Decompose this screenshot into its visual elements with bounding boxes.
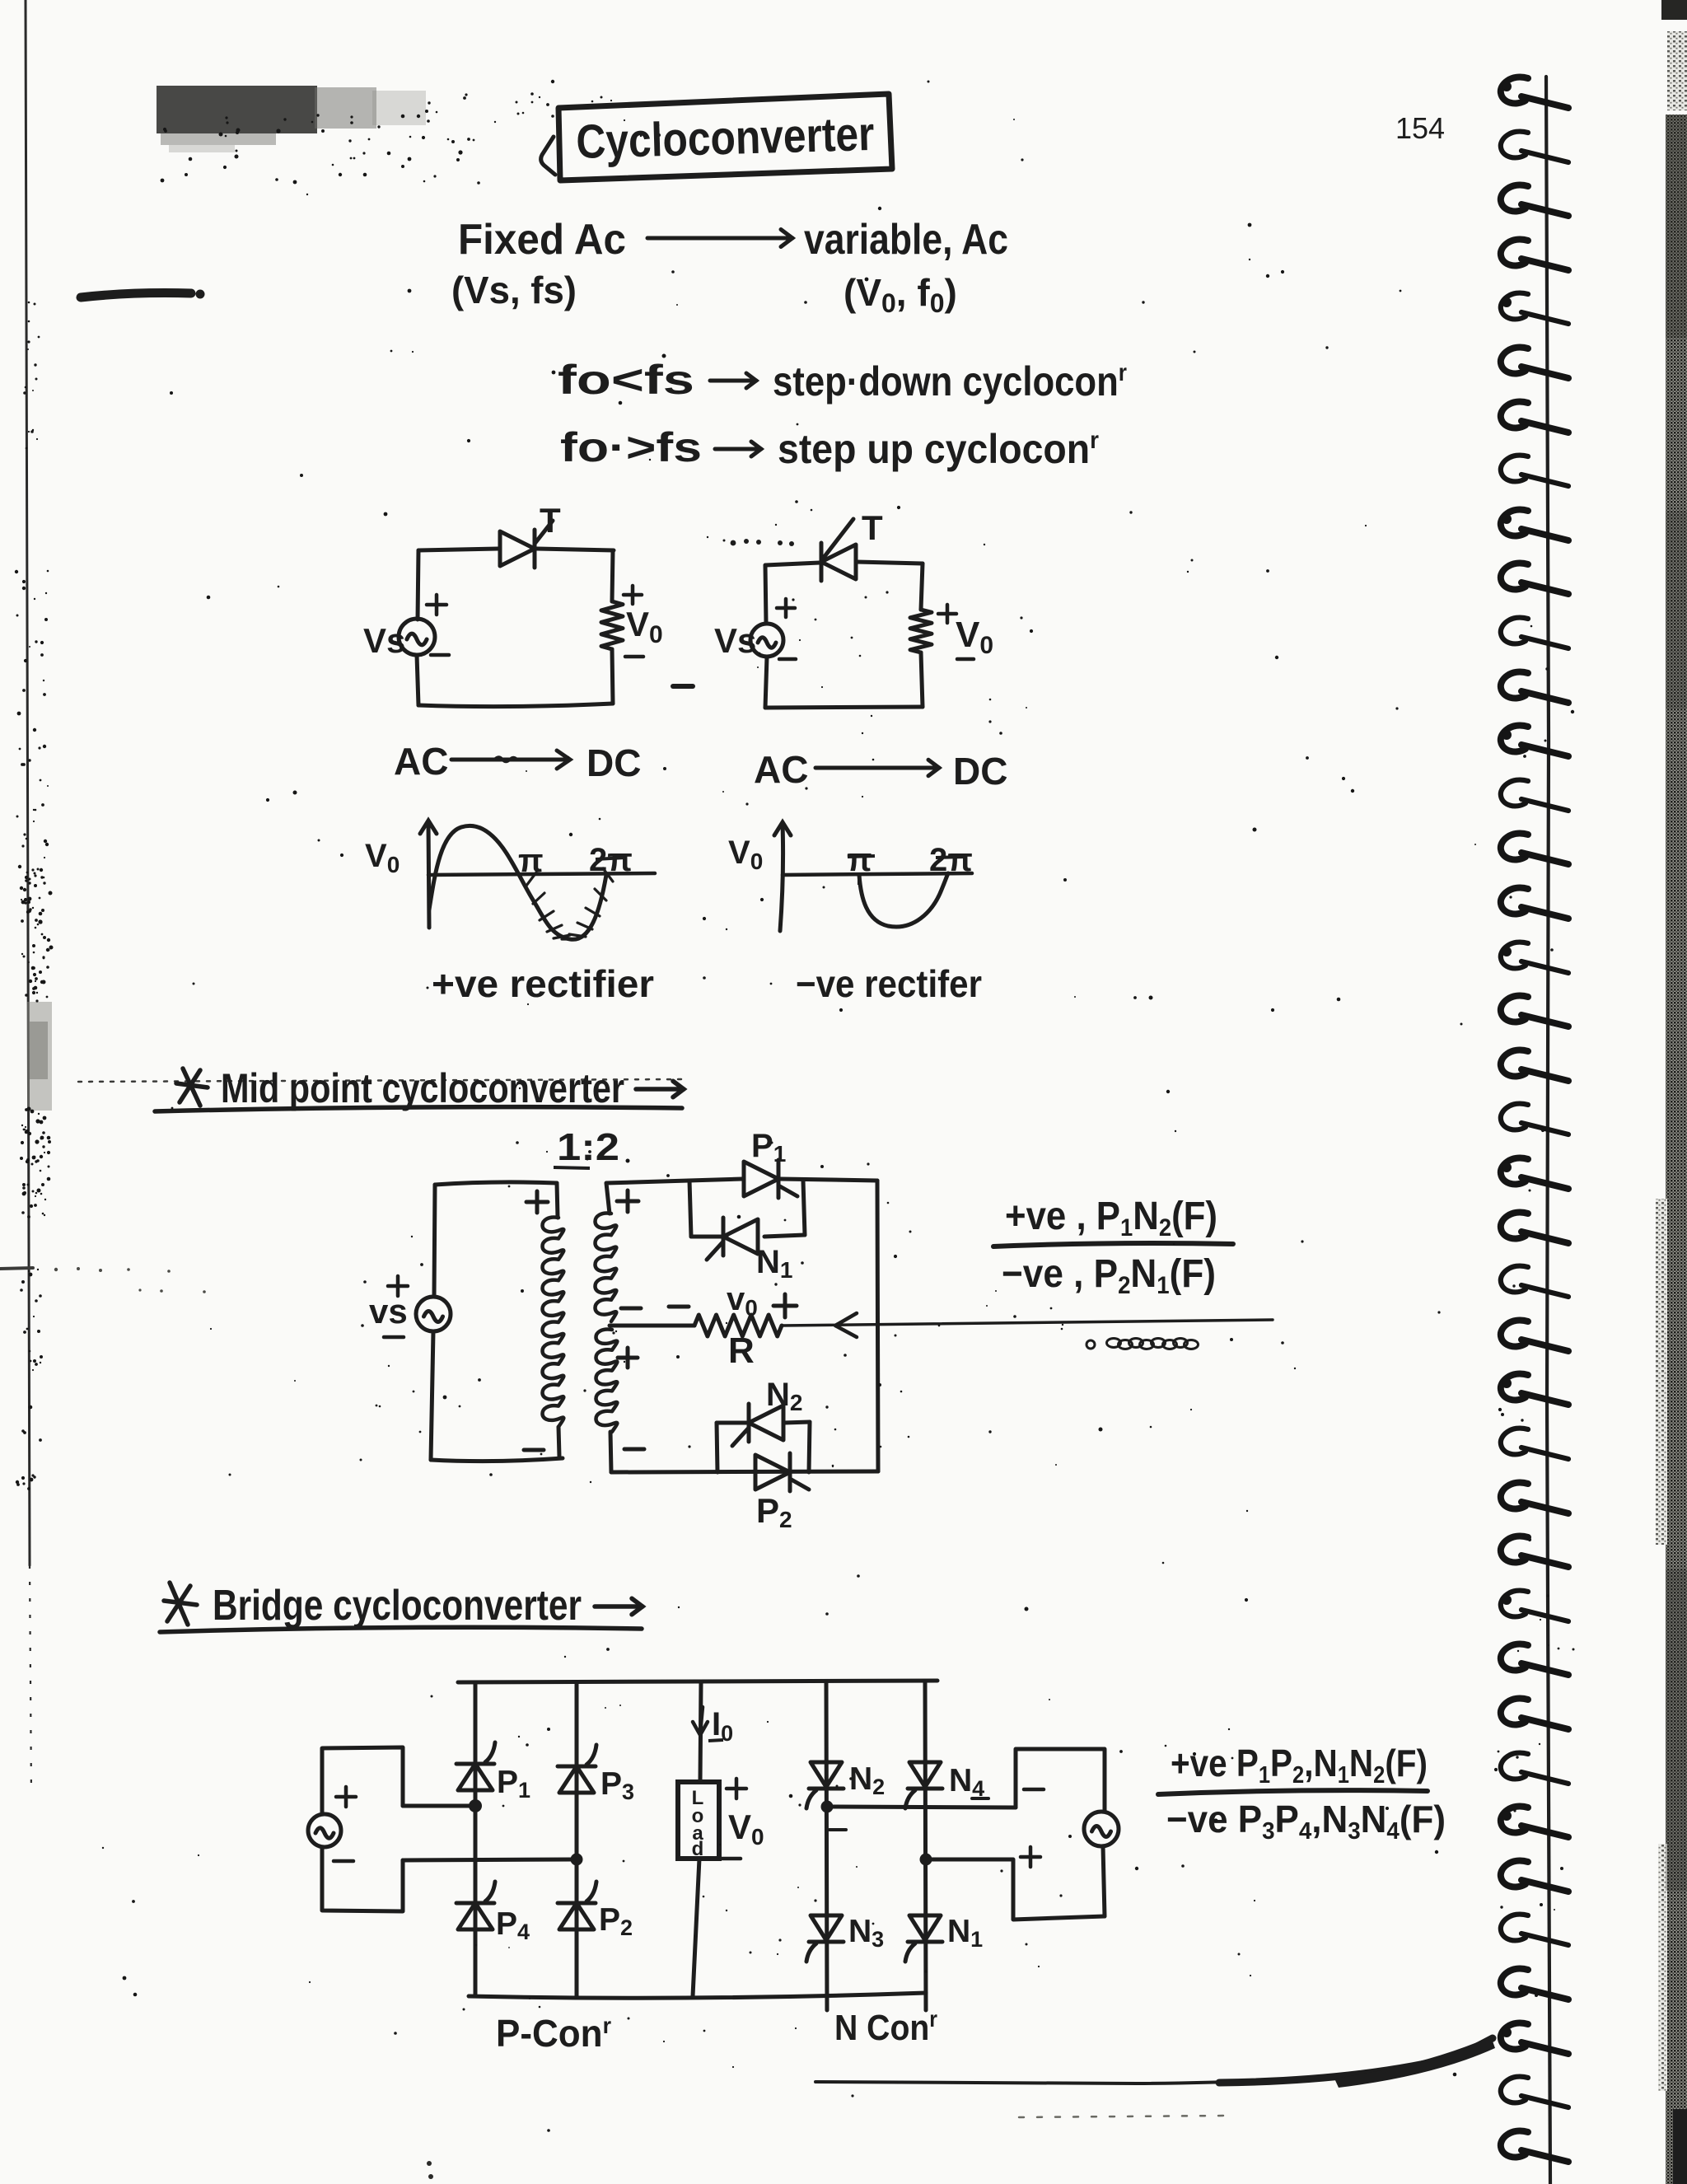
thyristor P4 bridge xyxy=(456,1882,495,1929)
thyristor N1 xyxy=(707,1218,758,1260)
thyristor P3 bridge xyxy=(558,1745,596,1793)
svg-text:Fixed Ac: Fixed Ac xyxy=(458,216,626,264)
svg-text:−ve , P2N1(F): −ve , P2N1(F) xyxy=(1002,1252,1216,1299)
plus right source bridge xyxy=(1021,1847,1040,1867)
left margin rule xyxy=(26,0,30,1565)
thyristor N4 bridge xyxy=(905,1762,942,1808)
svg-text:V0: V0 xyxy=(728,1808,764,1850)
wire right upper circuit1 xyxy=(612,550,613,601)
svg-text:V0: V0 xyxy=(728,835,763,874)
wire N junction to right bracket upper xyxy=(827,1807,1016,1808)
waveform1 hatching on negative lobe xyxy=(526,868,613,939)
svg-text:T: T xyxy=(862,508,883,547)
plus left source bridge xyxy=(336,1787,356,1807)
wire bottom rail midpoint xyxy=(611,1471,878,1472)
svg-text:π: π xyxy=(847,842,872,878)
svg-text:Vs: Vs xyxy=(714,621,756,660)
scribble chain under note xyxy=(1087,1339,1199,1349)
svg-text:N2: N2 xyxy=(766,1377,802,1415)
svg-text:d: d xyxy=(692,1838,704,1860)
primary winding xyxy=(543,1218,564,1427)
left source bottom bracket xyxy=(322,1847,403,1911)
plus at source circuit2 xyxy=(777,599,795,617)
thyristor P1 xyxy=(744,1160,797,1198)
wire secondary bottom stub xyxy=(610,1432,611,1472)
svg-text:fo·>fs: fo·>fs xyxy=(560,424,702,470)
svg-text:N3: N3 xyxy=(848,1914,884,1952)
heading2 underline xyxy=(160,1627,642,1632)
plus at load circuit1 xyxy=(624,586,642,604)
waveform2 vertical axis xyxy=(774,822,791,931)
wire left lower circuit1 xyxy=(417,655,418,705)
minus primary bottom xyxy=(524,1448,544,1452)
bridge bottom rail xyxy=(469,1993,926,1998)
left source top bracket xyxy=(322,1747,403,1814)
svg-text:step·down cycloconr: step·down cycloconr xyxy=(773,358,1127,405)
svg-text:Vs: Vs xyxy=(363,621,405,660)
wire primary top stub to winding xyxy=(557,1183,558,1218)
thyristor P2 xyxy=(755,1453,809,1491)
wire top-right segment circuit1 xyxy=(537,549,614,550)
rail N4 N1 xyxy=(925,1682,926,2010)
thyristor T circuit1 xyxy=(500,521,553,568)
wire primary winding bottom stub xyxy=(558,1427,559,1457)
svg-text:1:2: 1:2 xyxy=(557,1125,619,1168)
source Vs circuit2 xyxy=(750,624,783,657)
svg-text:+ve rectifier: +ve rectifier xyxy=(432,962,654,1005)
wire N1 branch left xyxy=(691,1235,727,1239)
wire top rail to P1 xyxy=(689,1179,742,1181)
svg-text:R: R xyxy=(728,1331,755,1371)
scan smudge top-left xyxy=(157,86,426,152)
minus left source bridge xyxy=(334,1859,353,1864)
thyristor N2 bridge xyxy=(806,1762,843,1808)
plus at load circuit2 xyxy=(938,605,956,623)
wire top-left segment circuit1 xyxy=(418,549,498,550)
junction dot P3 P2 xyxy=(571,1854,583,1866)
svg-text:P2: P2 xyxy=(756,1491,792,1532)
plus right of V0 midpoint xyxy=(773,1294,797,1317)
bottom page-edge line xyxy=(815,2038,1493,2083)
minus secondary bottom xyxy=(624,1447,644,1452)
load branch wire upper xyxy=(700,1682,701,1782)
plus primary top xyxy=(526,1191,548,1213)
resistor R midpoint xyxy=(694,1315,782,1336)
svg-text:DC: DC xyxy=(586,741,641,784)
svg-text:2π: 2π xyxy=(929,842,973,878)
right source top bracket xyxy=(1016,1749,1105,1811)
junction stub left of P1-N1 loop xyxy=(689,1181,691,1237)
left margin smear band xyxy=(27,1002,52,1111)
svg-text:DC: DC xyxy=(953,750,1007,793)
arrow I0 xyxy=(693,1707,708,1735)
thyristor P1 bridge xyxy=(456,1742,495,1790)
svg-text:N4: N4 xyxy=(949,1763,984,1801)
wire left lower circuit2 xyxy=(765,657,767,708)
source right bridge xyxy=(1084,1812,1119,1846)
wire top-right segment circuit2 xyxy=(857,562,923,564)
svg-text:+ve , P1N2(F): +ve , P1N2(F) xyxy=(1005,1195,1217,1242)
secondary winding lower half xyxy=(596,1330,618,1432)
junction dot P1 P4 xyxy=(469,1799,482,1812)
svg-text:+ve P1P2,N1N2(F): +ve P1P2,N1N2(F) xyxy=(1171,1742,1428,1789)
wire bottom circuit2 xyxy=(765,707,923,708)
leading dots circuit2 xyxy=(731,539,794,546)
minus near N4 xyxy=(972,1797,988,1800)
plus at load bridge xyxy=(727,1779,746,1798)
svg-text:V0: V0 xyxy=(365,838,400,877)
heading1 arrow xyxy=(636,1081,684,1097)
spiral binding rod xyxy=(1546,77,1550,2184)
waveform2 horizontal axis xyxy=(783,873,972,875)
svg-text:vs: vs xyxy=(369,1292,408,1331)
junction dot N2 xyxy=(821,1801,834,1813)
stub left of N2-P2 loop xyxy=(717,1423,717,1472)
wire bottom circuit1 xyxy=(418,704,613,707)
spiral binding coils xyxy=(1501,77,1568,2162)
svg-text:(V0, f0): (V0, f0) xyxy=(843,271,957,318)
wire center tap to resistor xyxy=(610,1324,694,1328)
svg-text:P4: P4 xyxy=(496,1906,530,1944)
svg-text:P3: P3 xyxy=(600,1766,634,1804)
title box xyxy=(558,94,892,180)
thyristor N1 bridge xyxy=(905,1915,942,1962)
waveform2 negative half-sine xyxy=(859,873,948,927)
rail N2 N3 xyxy=(826,1682,827,2010)
plus at primary source xyxy=(388,1276,408,1296)
wire right lower circuit1 xyxy=(612,649,613,704)
minus at source circuit1 xyxy=(431,653,449,657)
ruled dotted line through heading xyxy=(78,1079,684,1082)
right source lower wire xyxy=(1103,1846,1105,1916)
svg-text:P1: P1 xyxy=(497,1765,530,1803)
wire left upper circuit2 xyxy=(765,565,766,624)
wire resistor to right with arrowhead xyxy=(782,1320,1273,1326)
right source bottom bracket xyxy=(926,1859,1105,1920)
stray dash between circuits xyxy=(673,684,693,689)
svg-text:P2: P2 xyxy=(599,1902,633,1940)
wire primary top xyxy=(435,1182,557,1185)
rail P3 P2 xyxy=(575,1682,579,1996)
minus at primary source xyxy=(384,1335,404,1340)
svg-text:N1: N1 xyxy=(947,1914,983,1952)
svg-text:154: 154 xyxy=(1395,111,1445,145)
svg-text:−ve rectifer: −ve rectifer xyxy=(796,962,982,1005)
thyristor N2 xyxy=(732,1404,783,1446)
svg-text:Cycloconverter: Cycloconverter xyxy=(576,107,876,169)
minus left of V0 midpoint xyxy=(669,1305,689,1309)
bridge top rail xyxy=(458,1681,937,1682)
wire primary bottom xyxy=(431,1458,563,1461)
junction dot N1 N4 xyxy=(920,1854,932,1866)
svg-text:V0: V0 xyxy=(626,605,663,648)
svg-text:N1: N1 xyxy=(756,1244,792,1283)
svg-text:π: π xyxy=(518,843,544,879)
wire N1 branch right xyxy=(764,1235,805,1237)
svg-text:(Vs, fs): (Vs, fs) xyxy=(451,269,577,311)
scan noise speckles xyxy=(102,80,1476,2132)
svg-text:AC: AC xyxy=(754,748,808,791)
wire primary left upper xyxy=(434,1185,435,1297)
source Vs circuit1 xyxy=(399,619,435,655)
resistor load V0 circuit2 xyxy=(910,610,932,652)
minus at load circuit2 xyxy=(957,657,974,662)
plus secondary top xyxy=(617,1190,638,1212)
asterisk mark heading1 xyxy=(176,1069,208,1106)
stub right of P1-N1 loop xyxy=(803,1181,805,1235)
load branch wire lower xyxy=(693,1859,699,1996)
wire top-left segment circuit2 xyxy=(765,563,820,565)
minus right source bridge xyxy=(1024,1788,1044,1792)
resistor load V0 circuit1 xyxy=(601,601,623,649)
minus under N2 junction xyxy=(829,1828,846,1831)
svg-text:v0: v0 xyxy=(727,1281,758,1321)
stub right of N2-P2 loop xyxy=(809,1422,810,1472)
minus at source circuit2 xyxy=(779,657,796,662)
wire primary left lower xyxy=(431,1331,433,1460)
heading2 arrow xyxy=(595,1598,643,1615)
plus secondary below tap xyxy=(618,1348,638,1368)
wire right lower circuit2 xyxy=(921,652,923,707)
colon mark bottom center xyxy=(427,2161,433,2179)
secondary winding upper half xyxy=(596,1213,617,1321)
left margin dash mark xyxy=(81,293,191,297)
svg-text:T: T xyxy=(540,501,561,540)
wire secondary top stub xyxy=(606,1181,689,1214)
svg-text:AC: AC xyxy=(394,740,448,783)
heading1 underline xyxy=(155,1107,682,1111)
asterisk mark heading2 xyxy=(164,1583,197,1625)
waveform1 horizontal axis xyxy=(428,873,655,875)
wire N2 branch right xyxy=(784,1422,810,1423)
minus secondary above tap xyxy=(621,1307,641,1311)
source Vs midpoint xyxy=(416,1297,451,1331)
wire left source to P3P2 rail xyxy=(403,1859,575,1860)
svg-text:Bridge cycloconverter: Bridge cycloconverter xyxy=(213,1582,582,1630)
svg-text:step up cycloconr: step up cycloconr xyxy=(778,426,1099,472)
svg-text:P1: P1 xyxy=(751,1128,786,1167)
left margin dash at mid page xyxy=(0,1268,33,1269)
load box xyxy=(678,1782,719,1859)
svg-text:2π: 2π xyxy=(589,842,633,878)
minus at load circuit1 xyxy=(625,655,643,659)
wire N2 branch left xyxy=(717,1421,746,1425)
note fraction bar xyxy=(993,1243,1233,1246)
minus at load bridge xyxy=(721,1857,741,1861)
waveform1 vertical axis xyxy=(420,821,437,928)
note fraction bar bridge xyxy=(1158,1790,1428,1794)
thyristor T circuit2 xyxy=(821,543,856,581)
svg-text:variable, Ac: variable, Ac xyxy=(804,216,1008,264)
svg-text:N2: N2 xyxy=(849,1761,885,1799)
svg-text:N Conr: N Conr xyxy=(834,2006,937,2048)
waveform1 sine curve xyxy=(429,825,606,939)
thyristor N3 bridge xyxy=(806,1915,843,1962)
svg-text:fo<fs: fo<fs xyxy=(558,357,694,403)
source left bridge xyxy=(308,1814,341,1847)
rail P1 P4 xyxy=(474,1682,478,1996)
svg-text:−ve P3P4,N3N4(F): −ve P3P4,N3N4(F) xyxy=(1166,1798,1446,1845)
right edge dark strips xyxy=(1656,0,1687,2184)
wire left upper circuit1 xyxy=(418,550,418,620)
wire left source to P junction xyxy=(403,1804,472,1808)
svg-text:Mid point cycloconverter: Mid point cycloconverter xyxy=(221,1065,624,1111)
plus at source circuit1 xyxy=(427,595,446,615)
wire right upper circuit2 xyxy=(921,564,923,610)
arrow fixed-to-variable xyxy=(647,230,792,247)
thyristor P2 bridge xyxy=(558,1882,596,1929)
svg-text:P-Conr: P-Conr xyxy=(496,2012,611,2055)
wire top rail P1 to right corner xyxy=(780,1179,877,1181)
wire right rail midpoint xyxy=(877,1181,878,1471)
faint dashes under bottom line xyxy=(1019,2116,1227,2117)
svg-text:V0: V0 xyxy=(956,615,993,659)
